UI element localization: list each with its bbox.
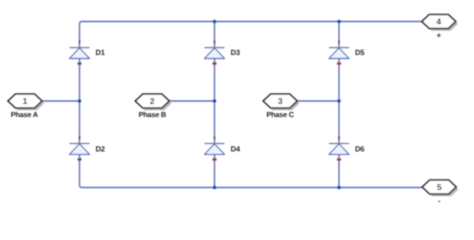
diode D5: [329, 40, 349, 65]
junction bottom bus / branch 3: [337, 186, 340, 189]
svg-text:+: +: [436, 31, 441, 40]
svg-text:1: 1: [23, 96, 28, 106]
junction phase A / branch 1: [78, 99, 81, 102]
junction top bus / branch 2: [213, 20, 216, 23]
diode D6: [329, 136, 349, 161]
svg-text:2: 2: [150, 96, 155, 106]
svg-text:D5: D5: [355, 48, 365, 57]
svg-text:D4: D4: [231, 144, 241, 153]
svg-text:Phase C: Phase C: [266, 110, 294, 119]
port 1 (Phase A input): [8, 94, 44, 110]
svg-text:D3: D3: [231, 48, 240, 57]
svg-text:4: 4: [436, 17, 441, 27]
wire: branch 2 vertical: [214, 22, 216, 188]
junction bottom bus / branch 2: [213, 186, 216, 189]
svg-text:-: -: [438, 197, 441, 206]
diode D1: [70, 40, 90, 65]
port 2 (Phase B input): [135, 94, 171, 110]
svg-text:5: 5: [437, 182, 442, 192]
wire: main bridge outline (top bus, left branch, bottom bus): [80, 22, 423, 188]
junction phase C / branch 3: [337, 99, 340, 102]
svg-text:D2: D2: [96, 144, 105, 153]
diode D4: [205, 136, 225, 161]
port 4 (+ output): [422, 15, 458, 31]
svg-text:D6: D6: [355, 144, 364, 153]
svg-text:D1: D1: [96, 48, 106, 57]
wire: branch 3 vertical: [338, 22, 340, 188]
diode D2: [70, 136, 90, 161]
svg-text:Phase B: Phase B: [139, 110, 166, 119]
wire: phase B to branch 2: [170, 100, 215, 102]
junction phase B / branch 2: [213, 99, 216, 102]
svg-text:3: 3: [278, 96, 283, 106]
wire: phase C to branch 3: [298, 100, 340, 102]
junction top bus / branch 3: [337, 20, 340, 23]
svg-text:Phase A: Phase A: [11, 110, 39, 119]
port 3 (Phase C input): [263, 94, 299, 110]
diode D3: [205, 40, 225, 65]
wire: phase A to branch 1: [42, 100, 80, 102]
port 5 (- output): [422, 180, 458, 196]
